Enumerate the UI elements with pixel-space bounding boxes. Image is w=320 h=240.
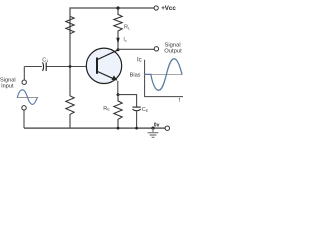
svg-text:0v: 0v: [154, 122, 160, 128]
transistor base bar: [96, 58, 98, 74]
signal input top terminal: [22, 80, 26, 84]
resistor R2 (lower bias resistor): [66, 67, 74, 129]
wire base node horizontal: [24, 66, 42, 68]
svg-text:CE: CE: [142, 107, 149, 113]
transistor emitter arrowhead: [112, 75, 118, 80]
svg-text:+Vcc: +Vcc: [161, 5, 176, 12]
Ic current arrow: [116, 38, 119, 44]
graph y-axis: [145, 60, 183, 97]
CE bottom wire: [136, 111, 138, 128]
signal input bottom wire: [23, 110, 25, 128]
+Vcc terminal: [154, 6, 158, 10]
CE branch wire: [118, 95, 137, 107]
transistor collector lead: [98, 50, 118, 59]
resistor RE: [114, 95, 122, 128]
signal input bottom terminal: [22, 106, 26, 110]
node emitter junction: [117, 93, 120, 96]
svg-text:Output: Output: [164, 48, 182, 54]
emitter wire: [117, 81, 119, 95]
input sine wave: [17, 90, 37, 105]
svg-text:Ic: Ic: [137, 57, 142, 63]
svg-text:Ic: Ic: [123, 37, 126, 43]
signal input top wire: [23, 67, 25, 80]
transistor Q1 body: [86, 48, 121, 83]
signal output wire: [118, 48, 154, 50]
graph bias line: [145, 73, 183, 75]
bottom rail wire: [24, 127, 165, 129]
top Vcc rail wire: [70, 8, 154, 67]
resistor R1 (upper bias resistor): [66, 16, 74, 34]
capacitor C1: [43, 62, 44, 71]
transistor emitter lead: [98, 72, 115, 80]
svg-text:t: t: [179, 97, 181, 103]
node base junction: [69, 65, 72, 68]
node R_L top junction: [116, 6, 119, 9]
svg-text:Bias: Bias: [130, 73, 141, 79]
0v terminal: [165, 126, 169, 130]
svg-text:Input: Input: [1, 84, 14, 90]
svg-text:RE: RE: [103, 106, 110, 112]
capacitor CE: [132, 106, 140, 108]
ground symbol: [152, 128, 154, 132]
resistor RL collector wire: [114, 8, 122, 50]
svg-text:Signal: Signal: [0, 77, 16, 83]
svg-text:RL: RL: [124, 25, 130, 31]
node ground junction: [151, 127, 154, 130]
node RE bottom junction: [117, 127, 120, 130]
node CE bottom junction: [135, 127, 138, 130]
signal output terminal: [154, 47, 158, 51]
input sine axis: [17, 97, 38, 99]
node collector output junction: [117, 48, 120, 51]
graph output sine wave: [145, 59, 182, 91]
svg-text:C1: C1: [42, 57, 48, 63]
